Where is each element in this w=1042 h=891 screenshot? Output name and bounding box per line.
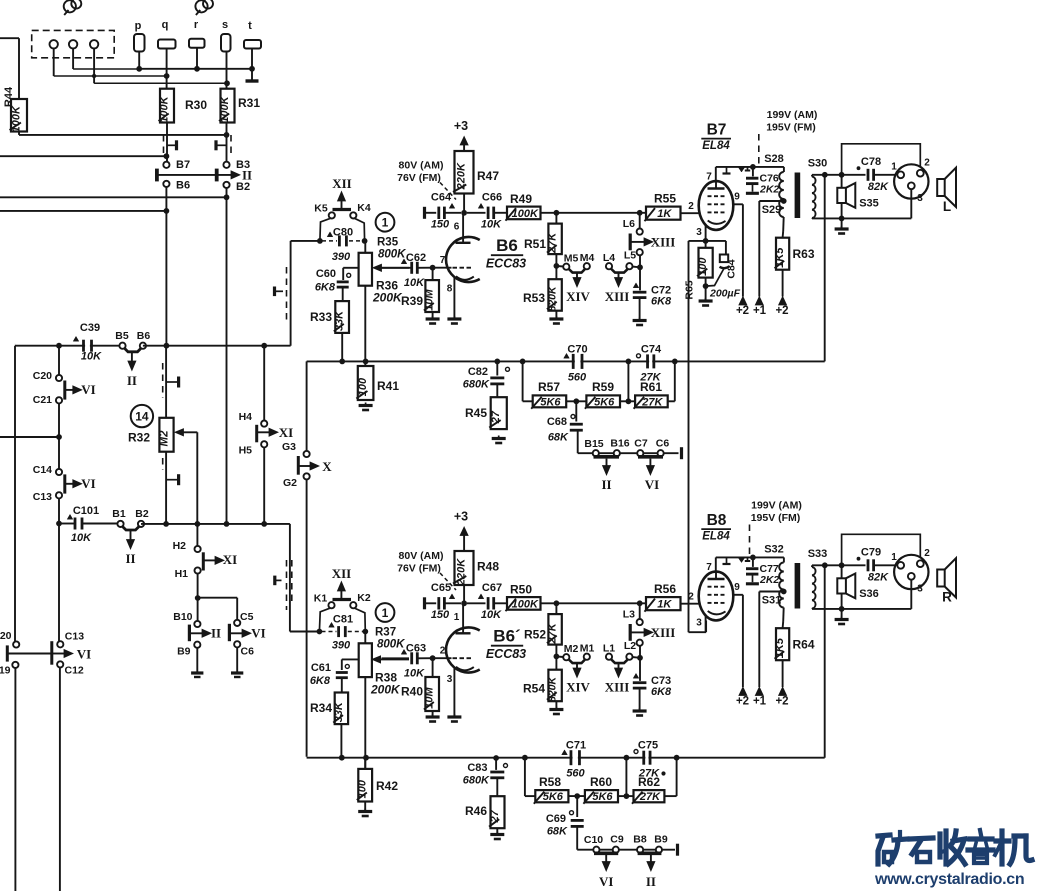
wire node to contact m5 [556, 265, 563, 268]
triode B6&#180; ECC83 [446, 628, 480, 673]
svg-text:6K8: 6K8 [651, 686, 672, 698]
svg-text:10K: 10K [71, 532, 92, 544]
resistor R39 10M [432, 268, 434, 280]
capacitor C71 [573, 754, 578, 762]
resistor R60 [585, 790, 618, 802]
switch B10-B9 to II [188, 625, 191, 642]
svg-text:100: 100 [357, 377, 369, 396]
svg-text:2: 2 [924, 158, 930, 169]
contact B8 [637, 847, 643, 853]
svg-text:VI: VI [645, 477, 659, 492]
connector J2 top [195, 0, 207, 12]
svg-text:1: 1 [454, 612, 460, 623]
wire lower rail down [289, 524, 291, 632]
svg-text:G3: G3 [282, 441, 296, 453]
svg-text:R34: R34 [310, 701, 332, 715]
svg-text:680K: 680K [463, 379, 490, 391]
svg-text:XII: XII [332, 566, 352, 581]
wiper R36 [373, 264, 382, 271]
wire K5 to C80 left [320, 218, 331, 241]
grid lead [433, 267, 452, 269]
arrow to XII [341, 200, 343, 210]
svg-text:20: 20 [0, 630, 12, 642]
circled 1 marker lower [376, 603, 395, 622]
svg-text:B1: B1 [112, 508, 126, 520]
supply arrows +2 +1 +2 [739, 687, 747, 696]
svg-text:EL84: EL84 [702, 140, 730, 152]
svg-text:C62: C62 [406, 252, 426, 264]
resistor R48 220K [455, 551, 474, 585]
svg-text:6K8: 6K8 [651, 296, 672, 308]
contact K5 [329, 212, 335, 218]
wire coupling to grid resistor [541, 602, 647, 604]
svg-text:C10: C10 [584, 834, 603, 846]
resistor R41 [363, 359, 369, 365]
input contact c [90, 40, 98, 48]
svg-text:B8: B8 [633, 834, 647, 846]
svg-text:390: 390 [332, 640, 351, 652]
node S30 [822, 172, 828, 178]
connector J1 top-left [64, 0, 76, 12]
svg-text:100K: 100K [219, 95, 231, 122]
branch to R58 [522, 755, 528, 761]
svg-text:2: 2 [688, 201, 694, 212]
svg-text:C6: C6 [656, 438, 670, 450]
transformer core [795, 563, 801, 609]
contact M4 [584, 263, 590, 269]
node B2 [224, 194, 230, 200]
capacitor C82 [494, 359, 500, 365]
pentode B7 EL84 [699, 181, 734, 230]
circled 14 marker [131, 405, 153, 427]
resistor R33 [335, 301, 349, 333]
ground under R39 [432, 316, 434, 319]
ground under t [246, 79, 259, 82]
svg-text:+2: +2 [775, 305, 788, 317]
svg-text:R55: R55 [654, 192, 676, 206]
arrow to XII lower [340, 590, 342, 600]
svg-text:2: 2 [440, 646, 446, 657]
svg-text:19: 19 [0, 665, 11, 677]
ground under R45 [498, 436, 500, 439]
resistor R62 [634, 790, 665, 802]
node C81 left [317, 629, 323, 635]
svg-text:5K6: 5K6 [543, 791, 564, 803]
svg-text:82K: 82K [868, 181, 889, 193]
ground under R46 [496, 828, 498, 833]
node B6 column [164, 208, 170, 214]
trimmer contact at B3 [230, 135, 232, 155]
wire from left to B2 [0, 196, 227, 198]
node H5 bus [261, 521, 267, 527]
svg-text:R31: R31 [238, 96, 260, 110]
svg-text:10K: 10K [81, 351, 102, 363]
contact H1 [195, 567, 201, 573]
wire R44 top [18, 38, 20, 99]
switch II bar right [215, 169, 219, 182]
resistor R64 1K5 [782, 608, 785, 622]
svg-text:H5: H5 [239, 445, 253, 457]
svg-text:33K: 33K [334, 310, 346, 331]
DIN connector [894, 555, 928, 589]
resistor R42 [363, 755, 369, 761]
svg-text:XI: XI [223, 552, 237, 567]
node B7 [164, 153, 170, 159]
svg-text:R48: R48 [477, 560, 499, 574]
svg-text:800K: 800K [377, 639, 405, 651]
ground under R40 [432, 714, 434, 717]
anode lead [462, 213, 464, 243]
svg-text:800K: 800K [378, 249, 406, 261]
svg-text:82K: 82K [868, 572, 889, 584]
svg-text:B9: B9 [177, 646, 191, 658]
wire C13-C101 [58, 498, 60, 523]
wire left rail down to bus [290, 241, 292, 346]
wire H5 down [263, 447, 265, 524]
svg-text:560: 560 [568, 372, 587, 384]
wire contact-a down [53, 49, 55, 77]
anode lead [462, 603, 464, 633]
svg-text:C14: C14 [33, 464, 52, 476]
tap node S29 [781, 589, 787, 595]
wire B6 column down [165, 187, 167, 346]
wire K2 to C81 right [355, 608, 366, 631]
node M2 bus [163, 521, 169, 527]
wire R31 down [226, 123, 228, 162]
contact B9 row [656, 847, 662, 853]
node p [136, 66, 142, 72]
resistor R49 100K [507, 207, 541, 220]
resistor R56 1K [646, 597, 681, 610]
resistor R31 [221, 89, 235, 123]
wire R62 right up [664, 795, 676, 797]
svg-text:C101: C101 [73, 505, 99, 517]
input contact b [69, 40, 77, 48]
output transformer secondary [812, 177, 816, 185]
svg-text:R60: R60 [590, 775, 612, 789]
capacitor C65 150 [423, 597, 426, 609]
contact L2 pair [637, 640, 643, 646]
svg-text:www.crystalradio.cn: www.crystalradio.cn [874, 871, 1024, 888]
svg-text:B7: B7 [707, 122, 727, 139]
svg-text:1: 1 [891, 552, 897, 563]
svg-text:10M: 10M [424, 289, 436, 311]
wire bus left end [14, 344, 16, 346]
svg-text:B6: B6 [137, 330, 151, 342]
svg-text:27K: 27K [547, 622, 559, 644]
contact M2 [563, 654, 569, 660]
contact C14 [56, 469, 62, 475]
svg-text:27K: 27K [639, 791, 661, 803]
resistor R47 220K [455, 151, 474, 194]
svg-text:+1: +1 [753, 305, 767, 317]
node r [194, 66, 200, 72]
resistor R53 820K [555, 254, 557, 279]
svg-text:R50: R50 [510, 583, 532, 597]
svg-text:VI: VI [81, 382, 95, 397]
svg-text:200µF: 200µF [709, 288, 741, 300]
wire C61 to R34 [341, 678, 343, 693]
svg-text:68K: 68K [547, 826, 568, 838]
switch contact L3 [639, 603, 641, 619]
contact C20 [56, 375, 62, 381]
wiper l4-l5 to XIII [611, 660, 627, 664]
contact B6 [163, 181, 169, 187]
wire tap to +1 [758, 201, 760, 297]
svg-text:XIII: XIII [605, 289, 630, 304]
wire bus a-q [54, 75, 167, 77]
input contact a [50, 40, 58, 48]
wire from left to B7 [0, 155, 166, 157]
svg-text:14: 14 [135, 410, 149, 424]
svg-text:C78: C78 [861, 156, 881, 168]
node R59-R61 [626, 398, 632, 404]
anode node [461, 600, 467, 606]
svg-text:S36: S36 [859, 588, 879, 600]
svg-text:+3: +3 [454, 510, 468, 524]
svg-text:100K: 100K [159, 95, 171, 122]
switch arrow to VI [52, 653, 65, 655]
switch H4-H5 to XI [255, 425, 258, 443]
node C39 left [56, 343, 62, 349]
svg-text:3: 3 [917, 193, 923, 204]
contact B7 [163, 162, 169, 168]
svg-text:S29: S29 [762, 204, 782, 216]
svg-text:27K: 27K [641, 396, 663, 408]
ground under R54 [555, 701, 557, 708]
svg-text:9: 9 [734, 582, 740, 593]
svg-text:R33: R33 [310, 310, 332, 324]
svg-text:B9: B9 [654, 834, 668, 846]
contact K1 [328, 602, 334, 608]
capacitor C76 2K2 [752, 167, 754, 177]
svg-text:680K: 680K [463, 775, 490, 787]
triode B6 ECC83 [446, 237, 480, 282]
wire contact-c down [93, 49, 95, 84]
internal screen ties [726, 557, 728, 564]
svg-text:XIV: XIV [566, 680, 590, 695]
contact C21 [56, 397, 62, 403]
resistor R57 [533, 395, 567, 407]
svg-text:B5: B5 [115, 330, 129, 342]
svg-text:27: 27 [489, 809, 501, 823]
wire t down [251, 49, 253, 80]
switch C14-C13 to VI [63, 474, 66, 493]
resistor R34 [335, 693, 348, 725]
svg-text:R54: R54 [523, 682, 545, 696]
svg-text:B6: B6 [496, 236, 518, 255]
resistor R54 820K [555, 645, 557, 670]
output transformer primary [783, 557, 785, 562]
svg-text:1K5: 1K5 [774, 247, 786, 268]
wire grid of output tube [681, 603, 701, 605]
capacitor C75 [645, 754, 648, 762]
svg-text:C66: C66 [482, 191, 502, 203]
svg-text:C83: C83 [467, 762, 487, 774]
svg-text:K5: K5 [314, 203, 328, 215]
DIN pin 1 [897, 562, 904, 569]
contact C12 [57, 661, 63, 667]
svg-text:XIII: XIII [651, 625, 676, 640]
resistor R51 27K [555, 213, 557, 224]
svg-text:10M: 10M [424, 686, 436, 708]
svg-text:195V (FM): 195V (FM) [751, 512, 801, 524]
dashed input group box [32, 30, 115, 57]
circled 1 marker [376, 213, 395, 232]
bus C39-B5 [15, 345, 123, 347]
DIN pin 1 [897, 171, 904, 178]
wire left column upper [58, 346, 60, 375]
svg-text:XIII: XIII [651, 235, 676, 250]
svg-text:M1: M1 [580, 643, 595, 655]
svg-text:C9: C9 [610, 834, 624, 846]
wire C60 to R33 [342, 287, 344, 301]
wire C70-C74 junction down [627, 361, 629, 401]
node H2 bus [195, 521, 201, 527]
contact C13 low [57, 641, 63, 647]
svg-text:R49: R49 [510, 192, 532, 206]
svg-text:C63: C63 [406, 643, 426, 655]
svg-text:L2: L2 [624, 640, 636, 652]
external speaker R [937, 570, 945, 587]
contact B3 [223, 162, 229, 168]
switch II bar left [155, 169, 159, 182]
svg-text:C12: C12 [65, 665, 84, 677]
svg-text:C60: C60 [316, 268, 336, 280]
ground speaker common [841, 218, 843, 227]
svg-text:68K: 68K [548, 432, 569, 444]
svg-text:C67: C67 [482, 582, 502, 594]
contact L1 [606, 654, 612, 660]
potentiometer R35/R36 [359, 253, 372, 286]
wire K4 to C80 right [355, 218, 365, 241]
svg-text:M2: M2 [564, 643, 579, 655]
capacitor C84 200uF [706, 240, 726, 242]
capacitor C72 6K8 [639, 255, 641, 291]
svg-text:II: II [601, 477, 611, 492]
pin 9 lead [733, 203, 743, 205]
node B2col bus [224, 521, 230, 527]
svg-text:C20: C20 [33, 370, 52, 382]
svg-text:M2: M2 [159, 430, 171, 447]
svg-text:t: t [248, 20, 252, 32]
contact B16 [614, 450, 620, 456]
svg-text:VI: VI [599, 874, 613, 889]
node R57-R59 [573, 398, 579, 404]
wire l5 to cap node [632, 266, 640, 269]
resistor R45 [491, 397, 507, 429]
svg-text:ECC83: ECC83 [486, 647, 526, 661]
svg-text:R65: R65 [684, 280, 696, 299]
wire pot left tap [343, 267, 358, 269]
wire coupling to grid resistor [541, 212, 647, 214]
svg-text:+2: +2 [736, 305, 749, 317]
terminal 20 [13, 641, 19, 647]
svg-text:VI: VI [77, 647, 91, 662]
wire H1 down [197, 574, 199, 621]
svg-text:2K2: 2K2 [759, 574, 779, 586]
row end terminal [680, 447, 683, 459]
svg-text:560: 560 [566, 768, 585, 780]
svg-text:R39: R39 [401, 294, 423, 308]
wire tap to +1 [758, 592, 760, 688]
contact G3 [304, 451, 310, 457]
switch H2-H1 to XI [202, 552, 205, 570]
ground under C73 [639, 708, 641, 711]
resistor R63 1K5 [782, 217, 785, 231]
svg-text:220K: 220K [456, 558, 468, 586]
wiper m5-m4 to XIV [569, 269, 585, 273]
svg-text:VI: VI [251, 626, 265, 641]
wire 19 down [14, 668, 16, 891]
contact K4 [350, 212, 356, 218]
svg-text:p: p [135, 20, 142, 32]
pentode B8 EL84 [699, 572, 734, 621]
wire to C5 [198, 597, 238, 599]
wire l5 to cap node [632, 656, 640, 659]
node S28 [750, 164, 756, 170]
svg-text:II: II [127, 373, 137, 388]
node C80 right [362, 238, 368, 244]
svg-text:1K: 1K [657, 599, 672, 611]
wire R44 bottom bus [18, 132, 20, 135]
svg-text:2K2: 2K2 [759, 184, 779, 196]
contact C9 [613, 847, 619, 853]
svg-text:R51: R51 [524, 237, 546, 251]
svg-text:R63: R63 [793, 247, 815, 261]
capacitor C62 10K [382, 267, 410, 269]
svg-text:K4: K4 [357, 202, 371, 214]
wire grid of output tube [681, 212, 701, 214]
svg-text:27K: 27K [547, 232, 559, 254]
svg-text:C5: C5 [240, 611, 254, 623]
svg-text:80V (AM): 80V (AM) [399, 550, 444, 562]
wire G2 down [306, 479, 308, 756]
svg-text:C71: C71 [566, 740, 586, 752]
contact L2 row [626, 654, 632, 660]
contact L5 row [626, 263, 632, 269]
wire H4 column [263, 346, 265, 421]
svg-text:C13: C13 [33, 491, 52, 503]
svg-text:II: II [646, 874, 656, 889]
DIN pin 3 [908, 573, 915, 580]
svg-text:q: q [162, 19, 169, 31]
contact C7 [637, 450, 643, 456]
svg-text:R46: R46 [465, 804, 487, 818]
svg-text:100: 100 [357, 779, 369, 798]
watermark logo [878, 830, 1032, 864]
wire from left to B6 column [0, 210, 166, 212]
svg-text:C70: C70 [567, 344, 587, 356]
svg-text:8: 8 [447, 284, 453, 295]
wire C21-C14 [58, 403, 60, 469]
svg-text:6: 6 [454, 222, 460, 233]
svg-text:1K5: 1K5 [774, 637, 786, 658]
svg-text:B2: B2 [135, 508, 149, 520]
svg-text:K2: K2 [357, 592, 371, 604]
svg-text:6K8: 6K8 [315, 282, 336, 294]
wire G3 riser [306, 361, 308, 451]
wire node to contact m5 [556, 655, 563, 658]
capacitor C66 10K [467, 212, 486, 214]
svg-text:L6: L6 [623, 218, 635, 230]
contact L4 [606, 263, 612, 269]
wire pot left tap lower [342, 658, 359, 660]
svg-text:R32: R32 [128, 431, 150, 445]
branch to R57 [520, 359, 526, 365]
pin 3 cathode lead [705, 224, 707, 241]
svg-text:G2: G2 [283, 477, 297, 489]
